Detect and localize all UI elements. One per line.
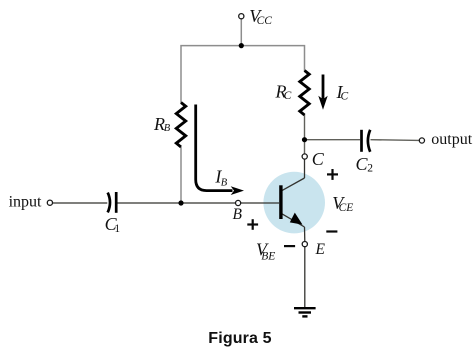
svg-text:B: B [233, 206, 243, 223]
svg-text:CE: CE [339, 202, 354, 214]
svg-text:B: B [221, 177, 228, 188]
svg-text:Figura 5: Figura 5 [208, 330, 271, 347]
svg-text:C: C [312, 149, 325, 169]
svg-text:2: 2 [367, 163, 373, 175]
svg-text:E: E [315, 241, 326, 258]
svg-text:C: C [284, 90, 292, 102]
svg-text:B: B [164, 123, 171, 134]
svg-text:C: C [341, 91, 349, 103]
svg-text:BE: BE [261, 250, 275, 262]
svg-text:output: output [431, 131, 472, 148]
svg-text:1: 1 [114, 223, 120, 235]
svg-text:input: input [9, 194, 42, 211]
svg-text:CC: CC [257, 15, 273, 27]
